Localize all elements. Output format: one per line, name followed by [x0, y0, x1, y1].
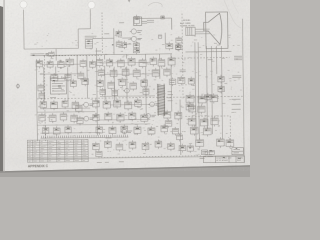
capacitor C12 [152, 68, 159, 78]
resistor R46 [93, 142, 100, 152]
net label GND [232, 108, 241, 110]
wire rail [44, 54, 102, 57]
scan background [0, 0, 250, 177]
wire bus [170, 65, 173, 112]
capacitor C108 [77, 116, 83, 125]
wire bus [221, 99, 223, 139]
capacitor C105 [217, 137, 225, 148]
resistor R112 [76, 103, 83, 113]
wire [145, 54, 147, 60]
connector J1 pinout table [85, 39, 92, 48]
net label J4 [232, 76, 241, 78]
resistor R13 [107, 58, 113, 68]
resistor R28 [114, 98, 121, 108]
net label +15V SUPV [234, 56, 242, 59]
capacitor C24 [175, 111, 182, 121]
resistor R15 [128, 57, 135, 67]
capacitor C13 [164, 67, 171, 77]
bottom border line [28, 156, 245, 159]
resistor R9 [66, 57, 74, 66]
capacitor C201 [39, 92, 45, 100]
resistor R44 [204, 93, 211, 101]
cable harness W1 [157, 84, 165, 116]
resistor R11 [90, 60, 96, 69]
margin note [97, 161, 124, 164]
annotation haze 2 [40, 58, 235, 152]
resistor R101 [186, 94, 194, 105]
resistor R30 [135, 98, 142, 108]
net label SPKR [180, 70, 186, 72]
dashed partition vertical [101, 12, 104, 54]
wire rail [96, 48, 97, 135]
wire rail [98, 118, 150, 121]
paper sheet [0, 0, 250, 171]
value label R6 4700 [147, 20, 154, 22]
transistor Q6 [121, 129, 133, 134]
IC U1 [50, 76, 66, 94]
wire bus [113, 67, 115, 101]
resistor R202 [100, 88, 106, 96]
scan grain overlay [0, 0, 250, 171]
resistor R102 [198, 94, 206, 104]
scan blotch overlay [0, 0, 250, 171]
net label [106, 137, 112, 139]
IC U2 [186, 102, 194, 112]
resistor R41 [176, 43, 182, 51]
table entries [28, 141, 86, 161]
resistor R48 [116, 142, 123, 151]
wire rail [40, 131, 100, 134]
diode CR1 [116, 30, 121, 38]
wire rail [40, 73, 78, 75]
wire [113, 28, 115, 54]
capacitor C20 [117, 112, 124, 122]
wire bus [164, 33, 166, 44]
transistor Q3 [82, 102, 94, 107]
wire rail [37, 111, 95, 114]
wire [55, 67, 57, 77]
resistor R21 [82, 77, 89, 86]
resistor R35 [109, 125, 116, 135]
capacitor C8 [98, 68, 104, 77]
resistor R25 [72, 100, 79, 110]
sheet reference mark [16, 83, 19, 88]
svg-text:DIAG: DIAG [237, 159, 242, 162]
revision block [232, 148, 243, 155]
wire rail [100, 61, 150, 64]
capacitor C14 [39, 113, 46, 123]
dashed bus [182, 13, 183, 99]
connector J3 pin row [40, 135, 128, 138]
resistor R1 [134, 15, 139, 26]
resistor R105 [211, 116, 219, 126]
resistor R42 [188, 77, 194, 86]
wire bus [104, 66, 106, 101]
terminal strip TB1 [201, 150, 207, 155]
dashed partition vertical left [44, 56, 45, 141]
resistor R4 [133, 47, 139, 55]
net label L5 CABLE [232, 98, 241, 100]
relay K1 [178, 76, 185, 86]
transistor Q4 [82, 116, 94, 121]
wire rail [40, 107, 90, 110]
transistor Q101 [123, 88, 129, 93]
relay K2 [169, 77, 176, 86]
wire horizontal shelf [24, 47, 78, 50]
wire [159, 54, 161, 60]
net label [208, 59, 213, 61]
capacitor C107 [141, 78, 148, 88]
capacitor C4 [51, 73, 58, 82]
capacitor C103 [200, 117, 208, 127]
dashed boundary [229, 116, 231, 149]
capacitor C10 [122, 67, 129, 77]
wire rail [40, 63, 80, 65]
paper notch top edge [128, 0, 131, 3]
wire [170, 54, 172, 58]
resistor R5 [175, 43, 180, 51]
transistor Q7 [144, 114, 156, 119]
dashed bus horizontal mid [37, 96, 243, 99]
net label [95, 50, 101, 52]
resistor R37 [134, 125, 141, 135]
resistor R18 [158, 58, 165, 68]
resistor R24 [62, 99, 68, 109]
svg-text:APPENDIX C: APPENDIX C [28, 164, 49, 168]
wire [126, 43, 131, 45]
title block revision marks [205, 151, 214, 153]
wire from left punch hole down [23, 10, 25, 49]
capacitor C6 [78, 71, 84, 80]
svg-text:OF PC BOARD: OF PC BOARD [216, 159, 228, 162]
resistor R12 [97, 58, 103, 68]
resistor R6 [36, 59, 43, 69]
resistor R19 [168, 56, 175, 67]
capacitor C11 [133, 68, 140, 78]
resistor R29 [125, 100, 132, 110]
resistor R10 [80, 59, 86, 68]
svg-text:MODEL: MODEL [183, 20, 191, 22]
capacitor C202 [112, 89, 118, 97]
wire bus [126, 67, 128, 103]
resistor R16 [139, 58, 146, 68]
resistor R203 [143, 87, 149, 96]
capacitor C102 [198, 104, 206, 114]
wire rail [86, 55, 89, 98]
table of parts bottom left [27, 140, 88, 163]
net label [142, 21, 148, 23]
capacitor C25 [218, 85, 225, 94]
speaker horn LS1 [204, 13, 222, 44]
audio cable label [85, 36, 97, 38]
capacitor C203 [172, 127, 178, 136]
resistor R34 [96, 125, 103, 135]
dashed boundary [175, 57, 230, 60]
corner crease top right [224, 0, 241, 28]
wire rail [100, 73, 160, 76]
wire [126, 54, 128, 58]
resistor R32 [53, 126, 60, 136]
wire [93, 37, 114, 39]
transistor Q2 [130, 36, 142, 41]
capacitor C3 [123, 41, 127, 49]
speaker label text [180, 20, 195, 28]
resistor R36 [121, 124, 128, 134]
capacitor C17 [71, 113, 78, 123]
wire rail [103, 53, 172, 56]
wire rail [185, 50, 231, 53]
terminal strip TB2 [209, 150, 214, 154]
resistor R106 [203, 126, 211, 136]
dashed partition horizontal [44, 54, 103, 57]
resistor R7 [47, 60, 53, 69]
wire horizontal y28 [78, 28, 90, 30]
speaker driver box [186, 27, 196, 35]
left scan edge strip [0, 6, 3, 171]
resistor R39 [161, 124, 168, 134]
capacitor C101 [210, 93, 218, 103]
punch hole left [20, 1, 27, 8]
dashed boundary [185, 115, 230, 118]
capacitor C2 [158, 35, 161, 38]
resistor R201 [38, 84, 44, 93]
capacitor C23 [164, 110, 171, 120]
wire rail [55, 49, 57, 61]
wire bus [43, 67, 45, 101]
left border line [36, 59, 37, 141]
capacitor C106 [108, 81, 115, 91]
resistor R108 [226, 138, 234, 148]
resistor R107 [196, 138, 204, 148]
value label [119, 46, 124, 48]
wires driver to horn [195, 29, 210, 34]
wire bus [211, 99, 213, 134]
resistor R3 [133, 41, 139, 49]
resistor R2 [116, 40, 121, 48]
resistor R26 [93, 99, 100, 109]
speaker enclosure box [206, 12, 228, 49]
paper bottom edge shadow [0, 165, 250, 173]
net label +15V [232, 103, 241, 105]
svg-text:AUX CASE: AUX CASE [180, 22, 191, 25]
resistor R109 [97, 79, 104, 89]
wire bus [67, 67, 69, 101]
resistor R31 [42, 126, 49, 135]
capacitor C104 [190, 125, 198, 135]
resistor R14 [118, 58, 125, 68]
resistor R52 [187, 144, 193, 153]
wire rail [100, 95, 155, 98]
value label [119, 22, 124, 24]
label CLASS B AMP [30, 54, 44, 56]
resistor R111 [130, 81, 137, 91]
right border line [242, 19, 244, 163]
capacitor C19 [105, 112, 112, 122]
net label [50, 97, 56, 99]
resistor R6 [134, 17, 142, 26]
wire labels beside harness [167, 92, 173, 101]
resistor R204 [165, 119, 172, 128]
top rail wire [134, 17, 171, 19]
wire vertical x79 [77, 29, 79, 48]
resistor R51 [176, 133, 182, 141]
capacitor C22 [141, 113, 148, 123]
capacitor C26 [129, 140, 136, 150]
wire bus [145, 67, 148, 115]
schematic content (slight scan tilt) [15, 7, 245, 169]
capacitor C30 [179, 144, 186, 153]
capacitor C29 [168, 142, 175, 151]
capacitor C9 [110, 68, 117, 78]
inductor L1 [166, 42, 173, 51]
wire [122, 37, 131, 39]
resistor R40 [176, 36, 182, 45]
resistor R17 [150, 56, 157, 66]
capacitor C15 [49, 113, 56, 123]
transistor Q1 [130, 29, 142, 34]
dense designator ink speckles [32, 16, 241, 161]
value label [143, 62, 148, 64]
notes text row [199, 157, 213, 159]
punch hole right [88, 1, 95, 8]
fold crease top center [148, 2, 162, 7]
title block [199, 148, 244, 163]
resistor R50 [96, 150, 103, 159]
wire bus [159, 66, 161, 79]
title block number [205, 154, 212, 156]
connector label P1 [104, 33, 109, 35]
wire rail [76, 56, 78, 74]
resistor R20 [70, 79, 76, 88]
resistor R8 [58, 60, 65, 69]
resistor R43 [218, 75, 225, 84]
capacitor C7 [48, 51, 54, 58]
faint annotation haze 3 [34, 31, 243, 156]
resistor R27 [103, 100, 110, 110]
wire drop right of rail [171, 18, 173, 29]
transistor Q5 [148, 102, 160, 107]
dashed line above bottom border [101, 156, 201, 158]
speaker cable verticals [195, 42, 223, 139]
capacitor C21 [129, 111, 136, 121]
capacitor C5 [65, 73, 72, 82]
resistor R22 [40, 100, 47, 110]
capacitor C28 [155, 139, 162, 148]
capacitor C1 [161, 16, 164, 19]
resistor R104 [188, 117, 196, 127]
wire bus [179, 100, 182, 155]
wire rail [37, 124, 150, 125]
annotation haze [39, 31, 240, 157]
capacitor C16 [60, 112, 67, 122]
wire from right punch hole down [89, 9, 91, 29]
resistor R47 [105, 140, 112, 150]
capacitor C18 [93, 113, 100, 123]
resistor R23 [51, 100, 58, 110]
resistor R33 [65, 125, 71, 134]
wire rail [110, 103, 150, 105]
resistor R110 [119, 77, 126, 87]
wire [104, 55, 106, 60]
resistor R38 [148, 126, 155, 136]
resistor R103 [189, 104, 196, 114]
capacitor C27 [142, 142, 149, 152]
